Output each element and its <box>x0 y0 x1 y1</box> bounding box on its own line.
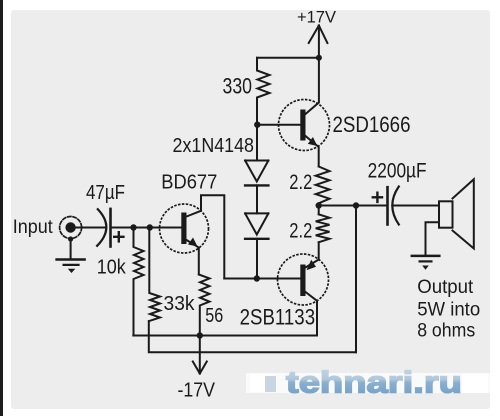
watermark partial glyph <box>265 376 276 392</box>
-17V supply arrow <box>193 336 207 374</box>
ground output <box>412 256 440 270</box>
svg-text:47µF: 47µF <box>86 182 125 204</box>
transistor Q1 2SD1666 body <box>279 100 330 151</box>
transistor Q3 2SB1133 body <box>278 254 329 305</box>
wire C1 to node dots <box>112 227 182 229</box>
wire connector to ground <box>70 239 72 258</box>
diode D2 1N4148 <box>245 213 268 238</box>
resistor R1 330 <box>257 58 270 125</box>
svg-text:Output: Output <box>417 277 474 298</box>
node A dot (330/base/diodes) <box>254 122 260 128</box>
capacitor C2 2200uF plates <box>388 187 399 225</box>
plus sign of C1 <box>114 232 123 241</box>
svg-text:BD677: BD677 <box>161 172 217 194</box>
svg-text:8 ohms: 8 ohms <box>417 321 475 342</box>
svg-text:tehnari.ru: tehnari.ru <box>286 365 462 400</box>
svg-text:+17V: +17V <box>297 8 337 27</box>
svg-text:5W into: 5W into <box>417 300 480 321</box>
resistor R2 2.2 upper <box>316 167 330 204</box>
capacitor C1 47uF plates <box>97 209 110 247</box>
wire node A to diode chain <box>256 125 258 161</box>
resistor R4 10k <box>134 228 144 336</box>
watermark white block right <box>462 374 488 393</box>
wire C2 to speaker <box>392 205 439 207</box>
node dot feedback tap <box>353 202 359 208</box>
svg-text:33k: 33k <box>164 293 196 315</box>
node dot input to 33k <box>147 224 153 230</box>
svg-text:2SB1133: 2SB1133 <box>240 304 316 329</box>
svg-text:2.2: 2.2 <box>289 219 312 242</box>
input connector J1 <box>60 217 82 239</box>
transistor Q2 BD677 emitter wire <box>187 240 199 275</box>
wire connector to C1 <box>71 227 105 229</box>
feedback wire output node down <box>355 206 357 353</box>
svg-text:10k: 10k <box>97 256 127 278</box>
input connector center pin <box>65 222 75 232</box>
watermark strip <box>246 373 490 393</box>
wire node B to 2SB1133 base <box>224 278 300 280</box>
node B dot (diodes/base line) <box>254 275 260 281</box>
left black border bar <box>0 0 3 416</box>
wire D2 to node B <box>256 239 258 279</box>
wire top rail <box>257 57 319 59</box>
transistor Q1 2SD1666 emitter wire <box>306 136 319 167</box>
input connector ground stub dot <box>68 236 73 241</box>
transistor Q2 BD677 body <box>160 204 209 253</box>
resistor R6 56 <box>199 275 210 336</box>
node dot output <box>316 202 322 208</box>
wire R3 to 2SB1133 emitter <box>306 242 319 267</box>
ground input <box>57 260 85 274</box>
wire negative rail <box>133 335 317 337</box>
+17V supply arrow <box>309 26 328 58</box>
wire node A to 2SD1666 base <box>258 124 301 126</box>
svg-text:330: 330 <box>223 74 253 99</box>
node dot input after C1 <box>130 224 136 230</box>
node dot -17V rail <box>197 332 203 338</box>
svg-text:2SD1666: 2SD1666 <box>333 112 411 137</box>
wire output node stub <box>318 203 320 214</box>
svg-text:2x1N4148: 2x1N4148 <box>173 135 255 157</box>
svg-text:2.2: 2.2 <box>289 171 312 194</box>
watermark white block left <box>250 374 273 392</box>
svg-text:2200µF: 2200µF <box>368 160 427 183</box>
diode D1 1N4148 <box>245 161 268 186</box>
speaker LS1 <box>439 179 474 248</box>
wire lower rail <box>149 321 356 352</box>
transistor Q3 2SB1133 collector wire <box>306 292 318 336</box>
plus sign of C2 <box>373 193 382 202</box>
wire output node to capacitor C2 <box>319 205 387 207</box>
wire D1 to D2 <box>256 185 258 213</box>
wire speaker to ground <box>426 222 440 256</box>
transistor Q1 2SD1666 collector wire <box>306 58 319 114</box>
svg-text:Input: Input <box>13 217 54 238</box>
resistor R3 2.2 lower <box>316 214 330 242</box>
resistor R5 33k <box>149 228 160 322</box>
transistor Q2 BD677 collector wire <box>187 195 225 278</box>
node dot +17V junction <box>316 55 322 61</box>
svg-text:56: 56 <box>205 305 223 327</box>
svg-text:-17V: -17V <box>178 380 216 402</box>
